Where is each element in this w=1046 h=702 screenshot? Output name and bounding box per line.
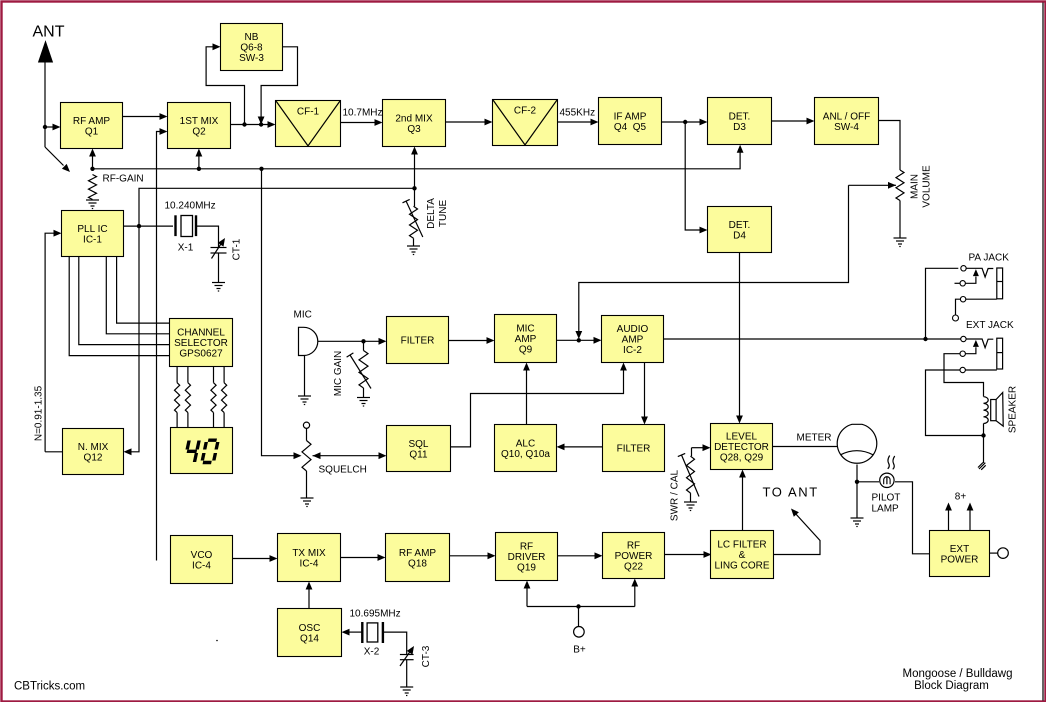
svg-text:RF AMP: RF AMP xyxy=(399,548,437,559)
wire LC FILTER to LEVEL DETECTOR xyxy=(739,470,746,531)
label PILOT LAMP xyxy=(872,493,901,515)
node B xyxy=(259,122,263,126)
wire meter to pilot lamp xyxy=(857,465,879,482)
arrow TO ANT xyxy=(791,509,799,517)
resistor display R2 xyxy=(185,367,190,428)
arrow volume wiper xyxy=(888,182,896,189)
svg-text:DET.: DET. xyxy=(729,111,751,122)
node MIC GAIN tap xyxy=(361,339,365,343)
meter M1 xyxy=(837,424,877,463)
svg-text:ALC: ALC xyxy=(516,438,535,449)
svg-text:B+: B+ xyxy=(573,645,586,656)
svg-text:8+: 8+ xyxy=(955,492,967,503)
svg-text:Q6-8: Q6-8 xyxy=(240,43,263,54)
node stray mark xyxy=(216,640,218,642)
svg-text:DRIVER: DRIVER xyxy=(508,552,546,563)
ground MIC xyxy=(298,396,311,405)
wire FILTER2 to ALC xyxy=(557,444,603,451)
node B+ xyxy=(576,604,580,608)
wire volume wiper to audio input xyxy=(575,185,896,339)
svg-text:CT-1: CT-1 xyxy=(232,238,243,260)
svg-text:TX MIX: TX MIX xyxy=(292,548,326,559)
rheostat MIC GAIN xyxy=(347,341,371,397)
wire NB input loop xyxy=(206,43,244,124)
block RF AMP Q1 xyxy=(61,103,123,149)
wire AUDIO AMP to FILTER2 xyxy=(641,363,648,425)
node delta tune xyxy=(412,186,416,190)
wire EXT POWER supply 1 xyxy=(945,503,952,531)
jack PA contact 3 xyxy=(960,297,996,302)
svg-text:LAMP: LAMP xyxy=(872,504,900,515)
label DELTA TUNE xyxy=(426,198,449,229)
svg-text:TO ANT: TO ANT xyxy=(763,485,819,500)
wire B+ to RF DRIVER xyxy=(524,581,531,607)
ground CT-3 xyxy=(400,687,413,696)
svg-text:SELECTOR: SELECTOR xyxy=(174,338,228,349)
label RF-GAIN xyxy=(103,174,144,185)
block LC FILTER LING CORE xyxy=(711,531,774,579)
microphone MIC xyxy=(299,327,318,396)
jack EXT plug tip xyxy=(966,339,993,348)
wire AGC line to DET D3 xyxy=(93,145,744,169)
wire B+ rail xyxy=(527,606,635,608)
jack PA contact 2 xyxy=(955,281,966,286)
wire X-2 to CT-3 xyxy=(383,632,407,654)
node A xyxy=(242,122,246,126)
arrow squelch wiper xyxy=(313,452,321,459)
block ANL / OFF SW-4 xyxy=(815,98,879,145)
ground SWR / CAL xyxy=(684,502,697,511)
wire IF junction to DET D4 xyxy=(685,122,707,233)
svg-text:10.240MHz: 10.240MHz xyxy=(165,201,216,212)
lamp PILOT LAMP xyxy=(880,455,895,487)
node audio output xyxy=(923,337,927,341)
wire VCO feed to 1ST MIX xyxy=(157,128,168,560)
wire pilot lamp to EXT POWER xyxy=(895,482,930,554)
svg-text:SQL: SQL xyxy=(408,439,428,450)
svg-text:10.695MHz: 10.695MHz xyxy=(350,609,401,620)
ground SQUELCH xyxy=(301,498,314,507)
wire RF DRIVER to RF POWER xyxy=(558,552,603,559)
svg-text:EXT: EXT xyxy=(950,544,969,555)
wire ALC to MIC AMP xyxy=(523,363,530,425)
wire AGC to RF AMP xyxy=(89,149,96,169)
wire EXT contact2 to speaker xyxy=(944,354,984,397)
svg-text:IC-4: IC-4 xyxy=(192,560,211,571)
trimmer capacitor CT-1 xyxy=(211,238,227,283)
svg-text:IF AMP: IF AMP xyxy=(614,111,647,122)
wire EXT switch arm xyxy=(966,340,979,354)
wire audio to PA jack tip xyxy=(926,268,959,339)
TR switch SW1 xyxy=(45,147,70,172)
ground DELTA TUNE xyxy=(407,246,420,255)
wire PLL to N.MIX xyxy=(124,226,140,455)
label Block Diagram xyxy=(914,680,989,692)
inductor speaker coil xyxy=(984,397,989,436)
svg-text:CF-2: CF-2 xyxy=(514,106,537,117)
wire PLL pin3 to selector xyxy=(79,257,170,345)
wire X-2 to OSC xyxy=(342,629,363,636)
svg-text:AMP: AMP xyxy=(515,334,537,345)
ground MIC GAIN xyxy=(357,398,370,407)
filter CF-2 xyxy=(493,100,558,146)
rheostat DELTA TUNE xyxy=(403,188,423,246)
svg-text:GPS0627: GPS0627 xyxy=(179,349,223,360)
wire N.MIX to PLL xyxy=(45,230,61,452)
svg-text:DETECTOR: DETECTOR xyxy=(714,442,769,453)
wire AUDIO AMP output xyxy=(664,338,926,340)
svg-text:AUDIO: AUDIO xyxy=(617,324,649,335)
wire 1ST MIX to CF-1 xyxy=(231,121,276,128)
svg-text:METER: METER xyxy=(797,433,832,444)
potentiometer MAIN VOLUME xyxy=(896,170,904,238)
block DET D3 xyxy=(708,98,772,145)
svg-text:Q4 Q5: Q4 Q5 xyxy=(614,122,647,133)
svg-text:10.7MHz: 10.7MHz xyxy=(343,108,383,119)
node AGC RF-GAIN xyxy=(90,167,94,171)
block TX MIX IC-4 xyxy=(278,534,341,582)
svg-text:Q10, Q10a: Q10, Q10a xyxy=(501,449,550,460)
svg-text:PLL IC: PLL IC xyxy=(77,224,107,235)
terminal B+ xyxy=(574,607,585,638)
block RF AMP Q18 xyxy=(386,534,450,582)
svg-text:LC FILTER: LC FILTER xyxy=(717,540,766,551)
svg-text:SPEAKER: SPEAKER xyxy=(1008,386,1019,433)
svg-text:FILTER: FILTER xyxy=(401,336,435,347)
label N=0.91-1.35 xyxy=(34,385,45,441)
block EXT POWER xyxy=(930,531,990,577)
label ANT xyxy=(33,24,65,41)
node audio input xyxy=(577,338,581,342)
wire 2nd MIX to CF-2 xyxy=(446,119,493,126)
jack PA plug tip xyxy=(966,268,994,277)
wire RF POWER to LC FILTER xyxy=(665,551,712,558)
svg-text:N. MIX: N. MIX xyxy=(78,442,109,453)
wire PLL pin1 to selector xyxy=(117,257,170,324)
svg-text:CHANNEL: CHANNEL xyxy=(177,328,225,339)
filter CF-1 xyxy=(276,101,341,147)
svg-text:VOLUME: VOLUME xyxy=(922,165,933,208)
svg-text:Q11: Q11 xyxy=(409,449,428,460)
block CHANNEL SELECTOR GPS0627 xyxy=(170,319,233,367)
terminal PA open xyxy=(953,299,961,321)
speaker SP1 xyxy=(991,393,1004,427)
wire CF-1 to 2nd MIX xyxy=(341,119,383,126)
ground MAIN VOLUME xyxy=(894,238,907,247)
label MIC xyxy=(294,310,312,321)
rheostat SWR / CAL xyxy=(678,444,711,502)
svg-text:TUNE: TUNE xyxy=(438,200,449,228)
block RF POWER Q22 xyxy=(603,533,665,579)
resistor RF-GAIN xyxy=(89,175,97,200)
svg-text:EXT JACK: EXT JACK xyxy=(966,320,1014,331)
jack EXT contact 1 xyxy=(926,336,967,341)
label Mongoose / Bulldawg xyxy=(903,668,1013,680)
block IF AMP Q4 Q5 xyxy=(599,98,662,145)
node meter ground xyxy=(855,480,859,484)
svg-text:DET.: DET. xyxy=(729,220,751,231)
wire AGC to squelch pot xyxy=(262,169,302,459)
svg-text:RF-GAIN: RF-GAIN xyxy=(103,174,144,185)
label 10.7MHz xyxy=(343,108,383,119)
svg-text:MIC GAIN: MIC GAIN xyxy=(333,351,344,397)
wire RF AMP Q18 to RF DRIVER xyxy=(450,552,496,559)
svg-text:1ST MIX: 1ST MIX xyxy=(180,116,219,127)
svg-text:SQUELCH: SQUELCH xyxy=(319,465,367,476)
wire squelch to SQL xyxy=(313,452,387,459)
svg-text:Q19: Q19 xyxy=(517,563,536,574)
svg-text:PILOT: PILOT xyxy=(872,493,901,504)
svg-text:MAIN: MAIN xyxy=(910,174,921,199)
wire RF AMP to 1ST MIX xyxy=(123,113,168,120)
svg-text:IC-2: IC-2 xyxy=(623,345,642,356)
wire MIC to FILTER xyxy=(318,338,387,345)
jack PA barrel xyxy=(997,268,1003,299)
svg-text:X-2: X-2 xyxy=(364,647,380,658)
wire DET D4 to LEVEL DETECTOR xyxy=(736,253,743,424)
jack EXT contact 2 xyxy=(960,351,965,356)
block 1ST MIX Q2 xyxy=(168,103,231,149)
svg-text:IC-4: IC-4 xyxy=(300,558,319,569)
svg-text:Q14: Q14 xyxy=(300,633,319,644)
wire PLL pin4 to selector xyxy=(69,257,169,356)
node antenna junction xyxy=(43,125,47,129)
label X-2 xyxy=(364,647,380,658)
wire PLL to X-1 xyxy=(124,225,174,227)
label MIC GAIN xyxy=(333,351,344,397)
jack EXT barrel xyxy=(997,338,1003,369)
wire ANL/OFF to volume pot xyxy=(879,121,901,171)
svg-text:Mongoose / Bulldawg: Mongoose / Bulldawg xyxy=(903,668,1013,680)
svg-text:VCO: VCO xyxy=(191,550,213,561)
wire EXT contact3 to speaker common xyxy=(926,370,984,436)
block ALC Q10 xyxy=(495,425,557,472)
wire meter ground drop xyxy=(856,482,858,518)
svg-text:X-1: X-1 xyxy=(178,243,194,254)
wire SQL to AUDIO AMP xyxy=(451,363,627,447)
svg-text:OSC: OSC xyxy=(299,623,321,634)
svg-text:RF AMP: RF AMP xyxy=(73,116,111,127)
svg-text:Q1: Q1 xyxy=(85,126,99,137)
svg-text:FILTER: FILTER xyxy=(617,444,651,455)
block channel display 40 xyxy=(171,428,233,474)
ground chassis speaker xyxy=(978,463,986,470)
svg-text:SWR / CAL: SWR / CAL xyxy=(670,470,681,522)
block N. MIX Q12 xyxy=(63,429,124,475)
wire N.MIX output xyxy=(45,451,62,453)
node AGC 1ST MIX xyxy=(197,167,201,171)
inner black frame line (right edge) xyxy=(1042,3,1044,701)
wire NB output loop xyxy=(258,47,298,125)
svg-text:Q28, Q29: Q28, Q29 xyxy=(720,453,764,464)
svg-text:RF: RF xyxy=(627,541,640,552)
block MIC AMP Q9 xyxy=(495,315,557,363)
label SQUELCH xyxy=(319,465,367,476)
label SWR / CAL xyxy=(670,470,681,522)
svg-text:Q3: Q3 xyxy=(407,124,421,135)
block SQL Q11 xyxy=(387,426,451,472)
svg-text:Q9: Q9 xyxy=(519,345,533,356)
svg-text:Block Diagram: Block Diagram xyxy=(914,680,989,692)
label 10.695MHz xyxy=(350,609,401,620)
label EXT JACK xyxy=(966,320,1014,331)
wire PLL pin2 to selector xyxy=(106,257,169,334)
svg-text:&: & xyxy=(739,550,746,561)
label PA JACK xyxy=(969,253,1010,264)
wire DET D3 to ANL/OFF xyxy=(772,118,815,125)
wire LEVEL DETECTOR to meter xyxy=(773,446,839,448)
svg-text:MIC: MIC xyxy=(294,310,312,321)
wire antenna to RF AMP xyxy=(45,124,61,131)
svg-text:AMP: AMP xyxy=(622,335,644,346)
wire MIC AMP to AUDIO AMP xyxy=(557,337,602,344)
svg-text:LING CORE: LING CORE xyxy=(714,561,769,572)
block AUDIO AMP IC-2 xyxy=(602,316,664,363)
terminal EXT POWER xyxy=(990,548,1009,559)
svg-text:PA JACK: PA JACK xyxy=(969,253,1010,264)
resistor display R1 xyxy=(175,367,180,428)
node speaker common xyxy=(981,433,985,437)
wire EXT POWER supply 2 xyxy=(967,503,974,531)
svg-text:MIC: MIC xyxy=(516,324,534,335)
antenna A1 xyxy=(38,40,53,147)
svg-text:ANT: ANT xyxy=(33,24,65,41)
label CT-1 xyxy=(232,238,243,260)
svg-text:CBTricks.com: CBTricks.com xyxy=(14,681,85,693)
block PLL IC IC-1 xyxy=(62,211,124,257)
svg-text:LEVEL: LEVEL xyxy=(726,432,758,443)
svg-text:Q12: Q12 xyxy=(84,452,103,463)
wire AGC to 1ST MIX xyxy=(196,149,203,169)
svg-text:455KHz: 455KHz xyxy=(560,108,596,119)
ground RF-GAIN xyxy=(86,200,99,209)
wire OSC to TX MIX xyxy=(306,582,313,609)
block OSC Q14 xyxy=(278,609,342,657)
wire IF AMP to DET D3 xyxy=(662,119,708,126)
wire B+ to RF POWER xyxy=(631,579,638,607)
wire PA switch arm xyxy=(966,269,979,283)
label CBTricks.com xyxy=(14,681,85,693)
svg-text:NB: NB xyxy=(245,32,259,43)
svg-text:CT-3: CT-3 xyxy=(421,645,432,667)
crystal X-1 xyxy=(176,215,197,236)
svg-text:RF: RF xyxy=(520,542,533,553)
wire LC FILTER to antenna switch xyxy=(774,513,821,555)
crystal X-2 xyxy=(362,622,383,643)
svg-text:ANL / OFF: ANL / OFF xyxy=(823,111,870,122)
block RF DRIVER Q19 xyxy=(496,533,558,581)
svg-text:CF-1: CF-1 xyxy=(297,107,320,118)
label CT-3 xyxy=(421,645,432,667)
svg-text:2nd MIX: 2nd MIX xyxy=(395,113,433,124)
block NB Q6-8 SW-3 xyxy=(221,24,283,71)
svg-text:DELTA: DELTA xyxy=(426,198,437,229)
block FILTER F1 xyxy=(387,317,449,364)
node PLL reference xyxy=(137,224,141,228)
node AGC squelch branch xyxy=(259,167,263,171)
block DET D4 xyxy=(708,207,772,253)
ground CT-1 xyxy=(212,283,225,292)
svg-text:POWER: POWER xyxy=(615,551,653,562)
label SPEAKER xyxy=(1008,386,1019,433)
label 455KHz xyxy=(560,108,596,119)
label 8+ xyxy=(955,492,967,503)
potentiometer SQUELCH xyxy=(302,422,311,498)
svg-text:D3: D3 xyxy=(733,122,746,133)
wire LO line xyxy=(139,188,415,226)
block 2nd MIX Q3 xyxy=(383,100,446,147)
label METER xyxy=(797,433,832,444)
jack PA contact 1 xyxy=(961,266,966,271)
svg-text:Q2: Q2 xyxy=(192,126,206,137)
label TO ANT xyxy=(763,485,819,500)
wire X-1 to CT-1 xyxy=(196,226,219,247)
trimmer capacitor CT-3 xyxy=(400,646,414,687)
svg-text:SW-3: SW-3 xyxy=(239,53,264,64)
svg-text:Q22: Q22 xyxy=(624,562,643,573)
wire VCO to TX MIX xyxy=(233,555,278,562)
wire TX MIX to RF AMP Q18 xyxy=(341,554,386,561)
wire CF-2 to IF AMP xyxy=(558,119,599,126)
wire FILTER to MIC AMP xyxy=(449,337,495,344)
label X-1 xyxy=(178,243,194,254)
ground meter xyxy=(851,518,864,527)
svg-text:N=0.91-1.35: N=0.91-1.35 xyxy=(34,385,45,441)
block FILTER F2 xyxy=(603,425,665,472)
svg-text:Q18: Q18 xyxy=(408,558,427,569)
block LEVEL DETECTOR Q28 Q29 xyxy=(711,424,773,470)
wire speaker to chassis xyxy=(983,436,985,464)
node C xyxy=(683,120,687,124)
jack EXT contact 3 xyxy=(960,367,997,372)
svg-text:IC-1: IC-1 xyxy=(83,234,102,245)
resistor display R3 xyxy=(211,367,216,428)
resistor display R4 xyxy=(222,367,227,428)
label 10.240MHz xyxy=(165,201,216,212)
label MAIN VOLUME xyxy=(910,165,933,208)
svg-text:D4: D4 xyxy=(733,230,746,241)
wire delta tune to 2nd MIX xyxy=(411,147,418,189)
svg-text:POWER: POWER xyxy=(941,554,979,565)
svg-text:SW-4: SW-4 xyxy=(834,122,859,133)
label B+ xyxy=(573,645,586,656)
block VCO IC-4 xyxy=(171,536,233,584)
